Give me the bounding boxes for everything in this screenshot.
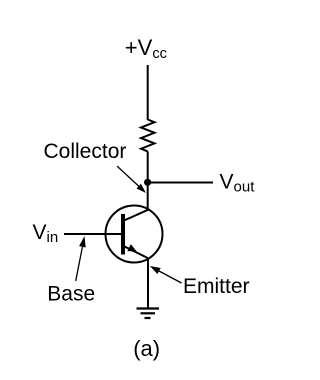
svg-text:+Vcc: +Vcc <box>125 35 167 62</box>
transistor Q1 collector lead <box>124 210 148 221</box>
transistor Q1 circle <box>106 206 163 263</box>
svg-text:(a): (a) <box>133 336 160 361</box>
base pointer arrow <box>76 236 86 281</box>
node collector junction dot <box>144 179 151 186</box>
svg-text:Collector: Collector <box>44 140 127 163</box>
ground symbol <box>137 309 160 319</box>
transistor Q1 emitter lead <box>124 246 148 258</box>
transistor Q1 base bar <box>121 214 125 255</box>
wire Vcc to resistor <box>147 65 149 120</box>
wire emitter to ground <box>147 258 149 308</box>
svg-text:Emitter: Emitter <box>183 275 250 298</box>
wire Vin to base <box>64 233 121 235</box>
transistor Q1 emitter arrowhead <box>127 244 136 251</box>
svg-text:Vin: Vin <box>33 221 59 246</box>
wire resistor to transistor collector <box>147 151 149 210</box>
wire node to Vout <box>148 182 213 184</box>
svg-text:Vout: Vout <box>220 171 256 196</box>
collector pointer arrow <box>117 166 146 193</box>
svg-text:Base: Base <box>47 283 95 306</box>
emitter pointer arrow <box>150 266 182 283</box>
resistor R (collector resistor) <box>141 120 155 152</box>
